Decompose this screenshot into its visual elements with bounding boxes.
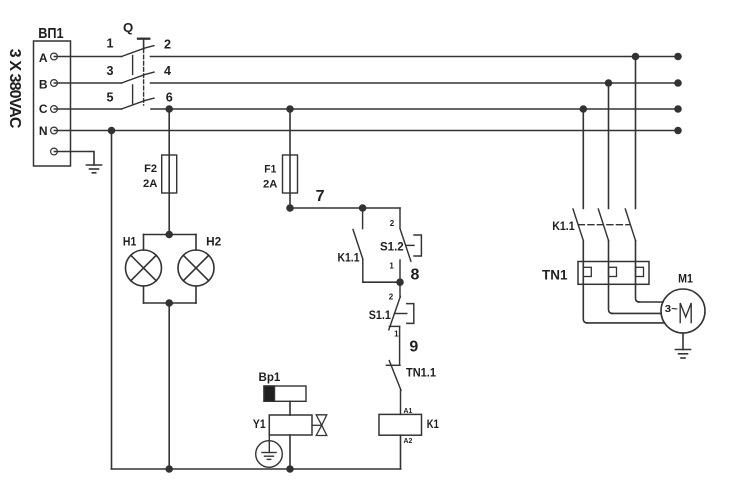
- valve symbol: [312, 415, 327, 436]
- svg-text:N: N: [39, 124, 48, 138]
- wire pole3 to TN1: [636, 241, 640, 303]
- svg-text:ВП1: ВП1: [38, 25, 63, 42]
- wire N down left side: [111, 131, 113, 470]
- wire phase C rail: [151, 108, 678, 110]
- wire A down: [635, 57, 637, 209]
- svg-text:M1: M1: [678, 273, 693, 285]
- node A to contactor: [633, 54, 639, 60]
- connector BP1 box: [34, 41, 71, 166]
- terminal A: [51, 53, 58, 60]
- wire neutral N rail: [54, 130, 678, 132]
- wire bottom rail: [112, 468, 401, 470]
- solenoid valve Y1: [269, 415, 312, 435]
- svg-text:F1: F1: [264, 164, 276, 176]
- svg-text:H1: H1: [123, 235, 137, 249]
- wire C down: [582, 109, 584, 208]
- motor ground: [676, 333, 691, 358]
- svg-text:8: 8: [411, 267, 420, 284]
- node Y1 bottom rail: [287, 466, 293, 472]
- fuse F1: [283, 155, 298, 193]
- contact TN1.1: [386, 361, 401, 415]
- wire lamps to bottom rail: [168, 303, 170, 469]
- wire TN1 pole1 to motor: [587, 322, 665, 324]
- relay coil K1: [379, 414, 422, 435]
- svg-text:S1.2: S1.2: [380, 239, 404, 253]
- contactor K1.1 pole 3 blade: [625, 209, 635, 241]
- node lamp top: [166, 232, 172, 238]
- switch Q linkage solid: [132, 56, 134, 104]
- svg-text:K1.1: K1.1: [552, 219, 575, 233]
- svg-text:1: 1: [389, 262, 394, 271]
- svg-text:Bp1: Bp1: [259, 370, 281, 384]
- svg-text:6: 6: [166, 90, 173, 104]
- svg-text:C: C: [39, 102, 48, 116]
- contact S1.2 start button: [400, 208, 421, 282]
- ground circle at Y1: [256, 435, 283, 467]
- TN1 element pole 2: [609, 267, 617, 276]
- wire to H1: [143, 235, 145, 251]
- wire TN1 pole3 to motor: [639, 301, 664, 303]
- svg-text:1: 1: [394, 330, 399, 339]
- lamp bottom bus: [144, 302, 197, 304]
- wire H1 bottom: [143, 286, 145, 303]
- wire phase C left: [54, 108, 121, 110]
- svg-text:2: 2: [164, 37, 171, 51]
- switch Q pole 3-4 blade: [122, 72, 155, 83]
- svg-text:K1.1: K1.1: [338, 250, 360, 264]
- wire H2 bottom: [195, 286, 197, 303]
- lamp top bus: [144, 234, 197, 236]
- node rail N end: [675, 128, 681, 134]
- wire phase B left: [54, 82, 121, 84]
- svg-text:S1.1: S1.1: [369, 308, 391, 322]
- wire B down: [608, 83, 610, 208]
- wire K1.1 to node 8: [363, 281, 400, 283]
- svg-text:2: 2: [389, 293, 394, 302]
- node C to F2: [166, 106, 172, 112]
- svg-text:A1: A1: [404, 406, 413, 415]
- wire to H2: [195, 235, 197, 251]
- node rail C end: [675, 106, 681, 112]
- switch Q linkage dashed: [143, 49, 145, 105]
- lamp H1: [126, 250, 162, 286]
- contactor K1.1 linkage dashed: [578, 224, 630, 226]
- wire K1 to bottom rail: [400, 435, 402, 469]
- sensor Bp1: [264, 386, 306, 401]
- wire TN1 pole2 to motor: [612, 312, 662, 314]
- svg-text:2A: 2A: [143, 178, 157, 190]
- wire pole1 to TN1: [583, 241, 587, 323]
- svg-text:H2: H2: [206, 234, 221, 248]
- lamp H2: [178, 250, 214, 286]
- svg-text:1: 1: [106, 37, 113, 51]
- motor M1: [661, 289, 705, 333]
- svg-text:TN1.1: TN1.1: [406, 366, 436, 380]
- wire C to F2 and lamps: [168, 109, 170, 235]
- motor M glyph: [680, 303, 691, 323]
- node N junction: [109, 128, 115, 134]
- terminal N: [51, 127, 58, 134]
- svg-text:A: A: [39, 51, 48, 65]
- switch Q pole 1-2 blade: [122, 46, 155, 57]
- wire phase B rail: [151, 82, 679, 84]
- svg-text:9: 9: [409, 339, 418, 356]
- svg-text:3: 3: [106, 64, 113, 78]
- switch Q handle: [138, 39, 149, 49]
- wire Y1 to bottom rail: [289, 435, 291, 469]
- terminal B: [51, 80, 58, 87]
- node 7: [287, 205, 293, 211]
- TN1 element pole 1: [583, 267, 591, 276]
- svg-text:5: 5: [106, 91, 113, 105]
- svg-text:TN1: TN1: [542, 266, 568, 282]
- wire node 7 horizontal: [290, 207, 400, 209]
- svg-text:3~: 3~: [665, 304, 678, 315]
- wire phase A rail: [151, 56, 679, 58]
- wire C to node 7: [289, 109, 291, 208]
- svg-text:4: 4: [164, 64, 171, 78]
- node C to F1: [287, 106, 293, 112]
- fuse F2: [162, 155, 177, 193]
- ground at connector: [87, 165, 102, 173]
- terminal PE: [51, 148, 58, 155]
- thermal overload TN1 box: [578, 262, 649, 285]
- terminal C: [51, 106, 58, 113]
- node lamp bottom: [166, 300, 172, 306]
- svg-text:Y1: Y1: [253, 417, 266, 431]
- svg-text:2A: 2A: [263, 178, 277, 190]
- wire phase A left: [54, 56, 121, 58]
- contact S1.1 stop button: [389, 282, 414, 364]
- wire pole2 to TN1: [609, 241, 613, 314]
- svg-text:3 X 380VAC: 3 X 380VAC: [6, 49, 23, 129]
- svg-text:K1: K1: [427, 419, 439, 431]
- contact K1.1 aux: [353, 208, 363, 282]
- node C to contactor: [580, 106, 586, 112]
- node rail A end: [675, 54, 681, 60]
- contactor K1.1 pole 1 blade: [573, 209, 583, 241]
- wire PE terminal to ground: [54, 152, 94, 166]
- svg-text:F2: F2: [144, 163, 157, 175]
- svg-text:Q: Q: [123, 20, 133, 35]
- node lamps bottom rail: [166, 466, 172, 472]
- svg-text:B: B: [39, 78, 48, 92]
- svg-text:2: 2: [390, 219, 395, 228]
- svg-text:7: 7: [316, 188, 325, 205]
- node rail B end: [675, 80, 681, 86]
- svg-text:A2: A2: [404, 436, 413, 445]
- TN1 element pole 3: [636, 267, 644, 276]
- switch Q pole 5-6 blade: [122, 98, 155, 109]
- wire Bp1 to Y1: [289, 401, 291, 415]
- node 8: [397, 279, 403, 285]
- node B to contactor: [606, 80, 612, 86]
- node K1.1 branch: [360, 205, 366, 211]
- contactor K1.1 pole 2 blade: [598, 209, 608, 241]
